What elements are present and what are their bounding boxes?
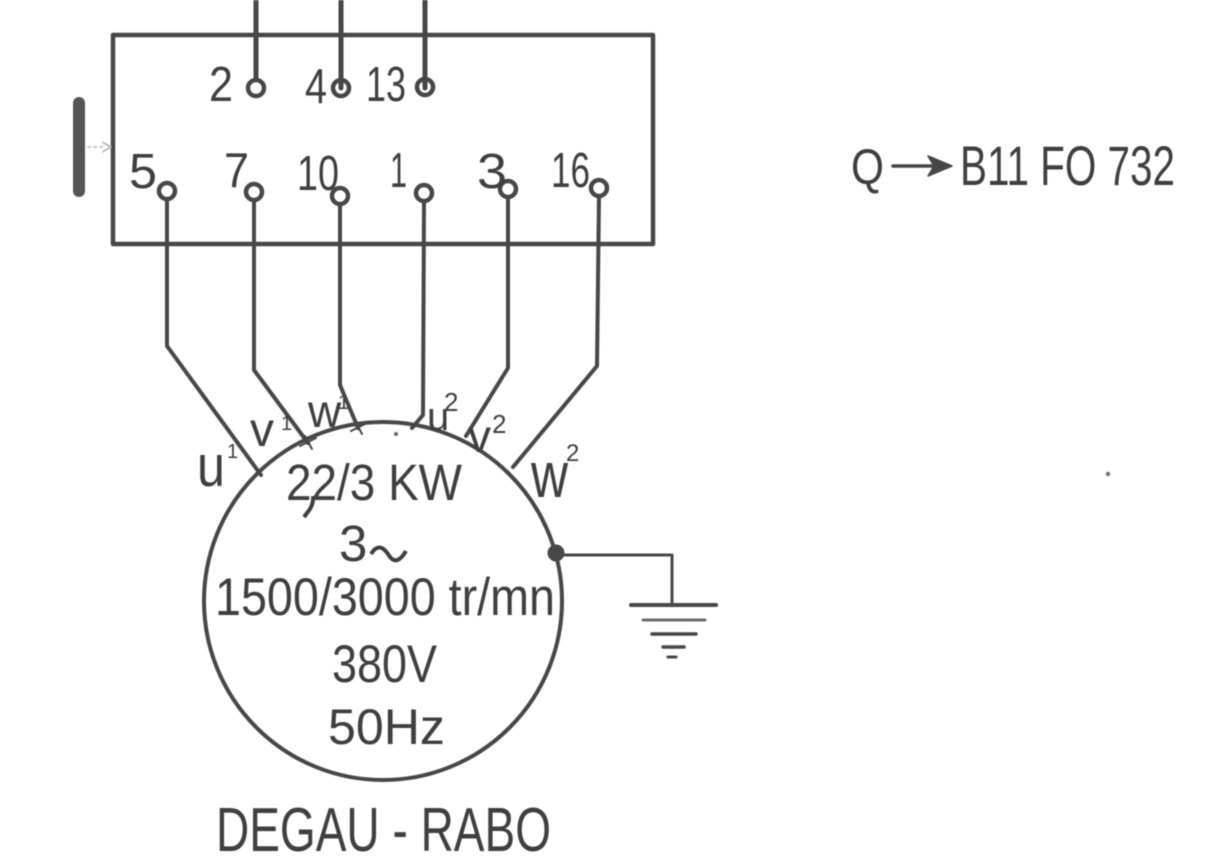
svg-text:w: w — [307, 385, 342, 437]
svg-text:7: 7 — [224, 144, 249, 198]
svg-text:1: 1 — [281, 413, 292, 435]
svg-text:B11 FO 732: B11 FO 732 — [960, 134, 1175, 197]
terminal dot 10 — [332, 188, 348, 204]
wire 1 to motor u2 — [412, 201, 424, 428]
svg-text:Q: Q — [851, 139, 884, 195]
svg-text:2: 2 — [492, 409, 506, 439]
wire to terminal 2 — [254, 0, 259, 79]
svg-text:v: v — [250, 404, 274, 457]
wire 5 to motor u1 — [167, 199, 261, 475]
svg-text:380V: 380V — [332, 635, 438, 694]
ground tap dot — [550, 547, 563, 560]
terminal box outline — [113, 35, 653, 244]
svg-text:w: w — [530, 439, 568, 511]
Q arrow — [893, 164, 938, 168]
wire tip flourish at w1 — [351, 421, 365, 434]
terminal dot 2 — [248, 80, 264, 96]
comma of 2,2 — [304, 496, 313, 517]
svg-text:DEGAU - RABO: DEGAU - RABO — [216, 796, 551, 864]
svg-text:13: 13 — [366, 58, 406, 112]
svg-text:5: 5 — [129, 145, 157, 199]
ground wire — [562, 555, 672, 605]
connector bar (left plug) — [73, 103, 85, 191]
terminal dot 1 — [416, 185, 432, 201]
wire 16 to motor w2 — [513, 196, 599, 467]
svg-text:16: 16 — [551, 144, 590, 198]
svg-text:50Hz: 50Hz — [328, 699, 445, 755]
terminal dot 3 — [500, 181, 516, 197]
motor circle M — [204, 422, 562, 780]
wire to terminal 13 — [423, 0, 428, 88]
ground symbol — [631, 603, 716, 607]
svg-text:2: 2 — [444, 387, 458, 417]
svg-text:2: 2 — [566, 440, 579, 467]
svg-text:1: 1 — [227, 441, 238, 463]
svg-text:1: 1 — [390, 144, 407, 198]
svg-text:u: u — [197, 434, 225, 499]
wire 3 to motor v2 — [466, 197, 508, 436]
wire tip flourish at v1 — [300, 436, 316, 449]
terminal dot 4 — [333, 80, 349, 96]
terminal dot 5 — [159, 183, 175, 199]
wire 10 to motor w1 — [340, 204, 358, 428]
stray speck — [1106, 472, 1110, 476]
svg-text:1500/3000 tr/mn: 1500/3000 tr/mn — [215, 568, 555, 627]
wire 7 to motor v1 — [254, 200, 308, 443]
svg-text:10: 10 — [297, 147, 339, 201]
svg-text:2: 2 — [209, 58, 233, 112]
svg-text:v: v — [468, 410, 491, 462]
wire to terminal 4 — [339, 0, 344, 88]
terminal dot 13 — [417, 79, 433, 95]
svg-text:1: 1 — [338, 392, 349, 414]
svg-text:3: 3 — [477, 145, 507, 199]
terminal dot 16 — [591, 180, 607, 196]
dashed lead-in arrow — [88, 146, 103, 148]
terminal dot 7 — [246, 184, 262, 200]
svg-text:4: 4 — [305, 60, 327, 114]
svg-text:3: 3 — [339, 515, 367, 572]
speck near u2 — [394, 432, 398, 436]
